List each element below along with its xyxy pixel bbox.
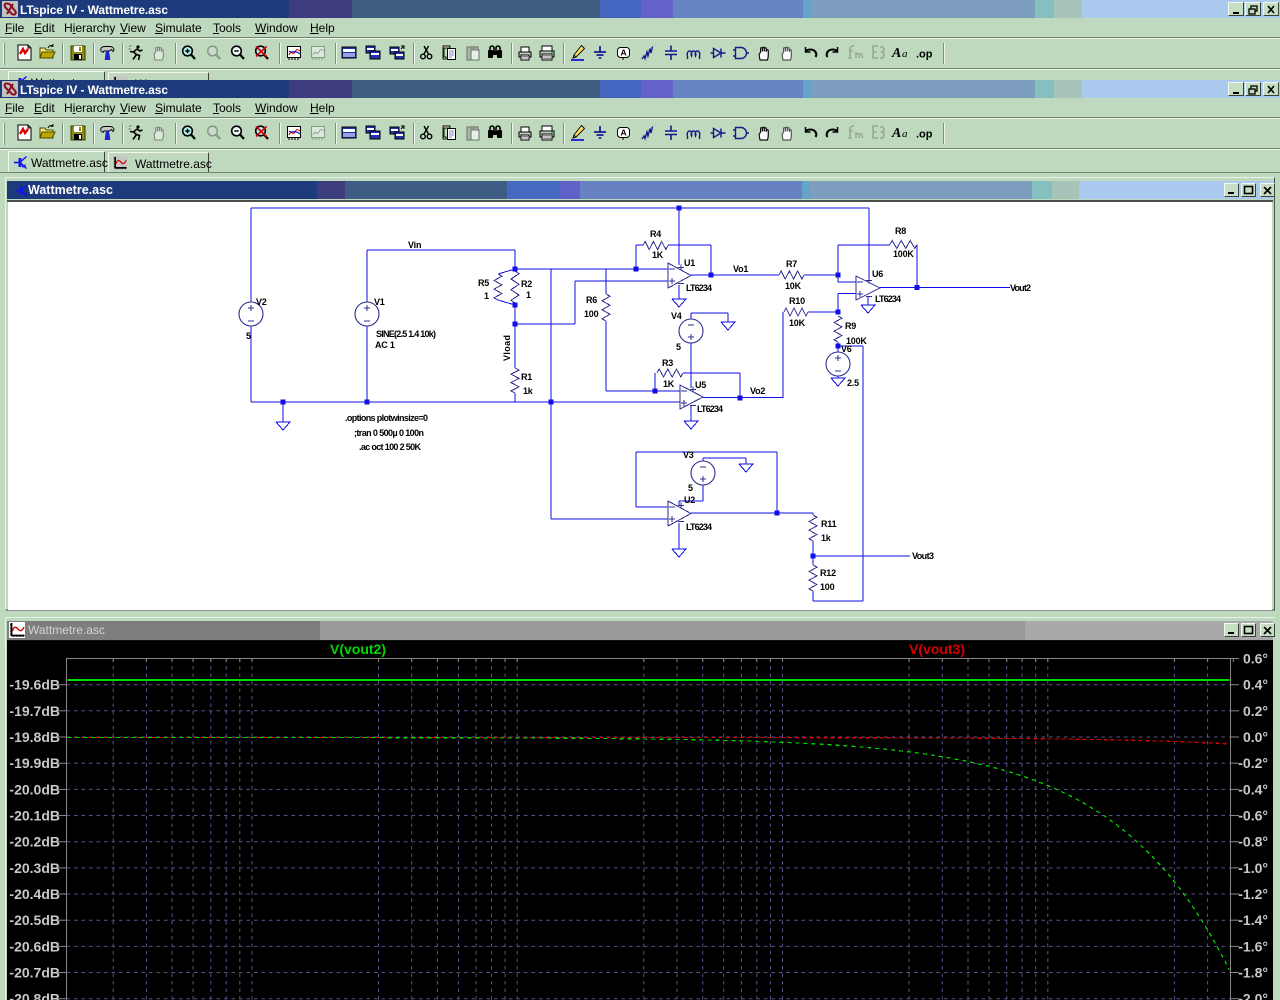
svg-text:R3: R3	[662, 358, 673, 368]
svg-text:.op: .op	[916, 129, 933, 141]
svg-text:U2: U2	[684, 495, 695, 505]
svg-text:-19.8dB: -19.8dB	[9, 729, 60, 745]
svg-text:Vo1: Vo1	[733, 264, 748, 274]
svg-text:-2.0°: -2.0°	[1238, 991, 1268, 1000]
svg-text:5: 5	[246, 331, 251, 341]
svg-text:Vout2: Vout2	[1010, 283, 1031, 293]
svg-text:1k: 1k	[523, 386, 534, 396]
svg-text:.options plotwinsize=0: .options plotwinsize=0	[345, 413, 428, 423]
svg-text:100: 100	[584, 309, 599, 319]
svg-text:A: A	[621, 128, 627, 138]
svg-text:5: 5	[688, 483, 693, 493]
svg-text:V(vout3): V(vout3)	[909, 641, 965, 657]
svg-text:R4: R4	[650, 229, 661, 239]
svg-text:V4: V4	[671, 311, 682, 321]
svg-text:SINE(2.5 1.4 10k): SINE(2.5 1.4 10k)	[376, 329, 436, 339]
svg-text:0.6°: 0.6°	[1243, 651, 1268, 667]
svg-text:-0.8°: -0.8°	[1238, 834, 1268, 850]
svg-text:1: 1	[484, 291, 489, 301]
svg-text:1K: 1K	[663, 379, 675, 389]
svg-text:5: 5	[676, 342, 681, 352]
svg-text:-1.8°: -1.8°	[1238, 965, 1268, 981]
svg-text:.ac oct 100 2 50K: .ac oct 100 2 50K	[359, 442, 422, 452]
svg-text:R7: R7	[786, 259, 797, 269]
svg-text:R12: R12	[820, 568, 836, 578]
svg-text:Vo2: Vo2	[750, 386, 765, 396]
svg-text:LT6234: LT6234	[686, 522, 712, 532]
svg-text:0.4°: 0.4°	[1243, 677, 1268, 693]
svg-text:A: A	[891, 126, 901, 141]
svg-text:U5: U5	[695, 380, 706, 390]
svg-text:V6: V6	[841, 344, 852, 354]
svg-text:R6: R6	[586, 295, 597, 305]
svg-text:-0.2°: -0.2°	[1238, 755, 1268, 771]
svg-text:-20.4dB: -20.4dB	[9, 886, 60, 902]
svg-text:0.0°: 0.0°	[1243, 729, 1268, 745]
svg-text:R10: R10	[789, 296, 805, 306]
svg-text:-1.4°: -1.4°	[1238, 912, 1268, 928]
svg-text:-20.7dB: -20.7dB	[9, 965, 60, 981]
svg-text:.op: .op	[916, 49, 933, 61]
svg-text:-19.6dB: -19.6dB	[9, 677, 60, 693]
svg-text:1: 1	[526, 290, 531, 300]
svg-text:R9: R9	[845, 321, 856, 331]
svg-text:R2: R2	[521, 279, 532, 289]
svg-text:a: a	[902, 48, 908, 60]
svg-text:-0.6°: -0.6°	[1238, 808, 1268, 824]
svg-text:Vout3: Vout3	[912, 551, 934, 561]
svg-text:A: A	[891, 46, 901, 61]
svg-text:100: 100	[820, 582, 835, 592]
svg-text:-19.7dB: -19.7dB	[9, 703, 60, 719]
svg-text:LT6234: LT6234	[686, 283, 712, 293]
svg-text:-0.4°: -0.4°	[1238, 781, 1268, 797]
svg-text:V2: V2	[256, 297, 267, 307]
svg-text:R11: R11	[821, 519, 837, 529]
svg-text:10K: 10K	[785, 281, 802, 291]
svg-text:V3: V3	[683, 450, 694, 460]
svg-text:;tran 0 500µ 0 100n: ;tran 0 500µ 0 100n	[354, 428, 424, 438]
svg-text:Vin: Vin	[408, 240, 421, 250]
svg-text:-20.1dB: -20.1dB	[9, 808, 60, 824]
svg-text:-1.2°: -1.2°	[1238, 886, 1268, 902]
svg-text:R8: R8	[895, 226, 906, 236]
svg-text:10K: 10K	[789, 318, 806, 328]
svg-text:U1: U1	[684, 258, 695, 268]
svg-text:V(vout2): V(vout2)	[330, 641, 386, 657]
svg-text:-20.3dB: -20.3dB	[9, 860, 60, 876]
svg-text:U6: U6	[872, 269, 883, 279]
svg-text:LT6234: LT6234	[697, 404, 723, 414]
svg-text:-19.9dB: -19.9dB	[9, 755, 60, 771]
svg-text:Vload: Vload	[502, 335, 512, 361]
svg-text:100K: 100K	[893, 249, 914, 259]
svg-text:V1: V1	[374, 297, 385, 307]
svg-text:-20.0dB: -20.0dB	[9, 781, 60, 797]
svg-text:0.2°: 0.2°	[1243, 703, 1268, 719]
svg-text:-1.6°: -1.6°	[1238, 938, 1268, 954]
svg-text:A: A	[621, 48, 627, 58]
svg-text:-20.8dB: -20.8dB	[9, 991, 60, 1000]
svg-text:-20.2dB: -20.2dB	[9, 834, 60, 850]
svg-text:R1: R1	[521, 372, 532, 382]
svg-text:R5: R5	[478, 278, 489, 288]
svg-text:2.5: 2.5	[847, 378, 859, 388]
svg-text:a: a	[902, 128, 908, 140]
svg-text:LT6234: LT6234	[875, 294, 901, 304]
svg-text:-20.6dB: -20.6dB	[9, 938, 60, 954]
svg-text:1k: 1k	[821, 533, 832, 543]
svg-text:1K: 1K	[652, 250, 664, 260]
svg-text:-20.5dB: -20.5dB	[9, 912, 60, 928]
svg-text:AC 1: AC 1	[375, 340, 395, 350]
svg-text:-1.0°: -1.0°	[1238, 860, 1268, 876]
